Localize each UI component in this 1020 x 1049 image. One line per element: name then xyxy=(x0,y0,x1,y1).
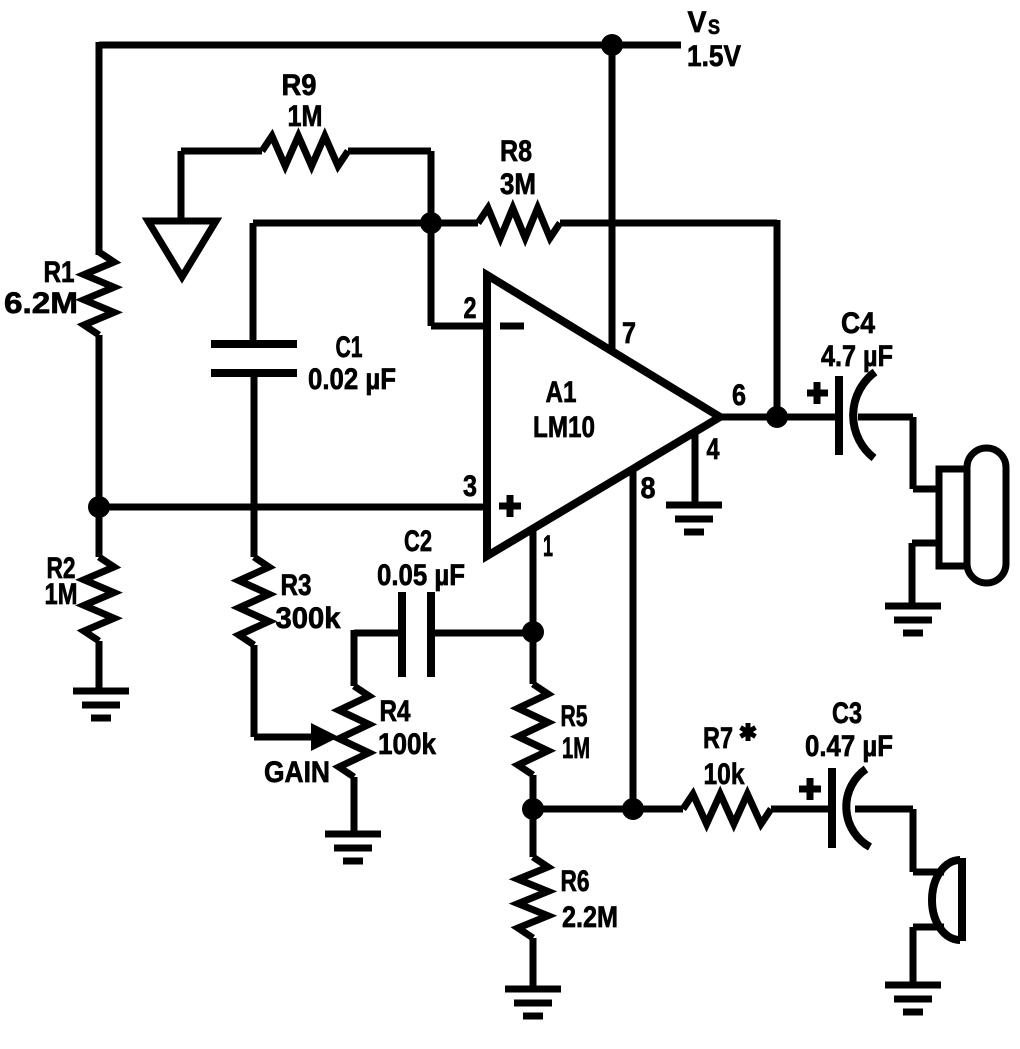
svg-text:R1: R1 xyxy=(44,256,75,289)
svg-text:R4: R4 xyxy=(380,695,411,728)
ground below R6 xyxy=(505,986,561,993)
node pin8 junction dot xyxy=(622,798,644,820)
resistor R8 xyxy=(431,220,478,227)
svg-text:V: V xyxy=(688,6,707,39)
plus sign C4 xyxy=(807,390,828,397)
wire R9 right leg down to junction xyxy=(428,151,435,223)
node Vs junction dot xyxy=(601,34,623,56)
wire C1 bottom through node3 to R3 xyxy=(251,373,258,557)
wire pin 4 to ground xyxy=(692,434,699,505)
svg-text:0.47 µF: 0.47 µF xyxy=(805,730,893,763)
wire speaker 2 to ground xyxy=(913,924,944,931)
svg-text:4: 4 xyxy=(707,433,720,466)
wire R1 to node 3 xyxy=(96,335,103,507)
svg-text:C2: C2 xyxy=(404,525,432,558)
svg-text:R9: R9 xyxy=(282,69,317,102)
op-amp A1 triangle xyxy=(487,275,720,556)
svg-text:C3: C3 xyxy=(832,697,862,730)
wire pin 1 down xyxy=(530,528,537,632)
resistor R6 xyxy=(530,809,537,857)
svg-text:R7: R7 xyxy=(703,722,733,755)
svg-text:7: 7 xyxy=(622,317,636,350)
svg-text:3: 3 xyxy=(463,470,477,503)
minus sign pin 2 xyxy=(500,323,524,330)
node pin1/C2/R5 junction dot xyxy=(522,621,544,643)
svg-text:3M: 3M xyxy=(500,168,536,201)
svg-text:10k: 10k xyxy=(704,758,745,791)
wire R9 left leg down to input arrow xyxy=(178,151,185,220)
svg-text:1M: 1M xyxy=(288,100,323,133)
wire C1 top rail xyxy=(253,220,431,227)
svg-text:100k: 100k xyxy=(378,728,436,761)
node R9/R8/C1 junction dot xyxy=(420,212,442,234)
svg-text:1M: 1M xyxy=(562,732,590,765)
svg-text:LM10: LM10 xyxy=(533,411,595,444)
svg-text:C1: C1 xyxy=(336,331,363,364)
node R5/R6/R7 junction dot xyxy=(522,798,544,820)
svg-text:S: S xyxy=(708,16,720,39)
plus sign C3 xyxy=(799,786,821,793)
svg-text:1M: 1M xyxy=(45,578,78,611)
svg-text:R3: R3 xyxy=(281,569,312,602)
wire output pin 6 xyxy=(718,414,836,421)
resistor R2 xyxy=(96,507,103,557)
svg-text:A1: A1 xyxy=(546,376,577,409)
wire C3 to speaker 2 xyxy=(855,806,913,813)
speaker 2 (earphone dome) xyxy=(958,858,966,941)
capacitor C1 xyxy=(250,223,257,344)
svg-text:R6: R6 xyxy=(561,865,590,898)
wire junction down to pin 2 xyxy=(428,223,435,326)
plus sign pin 3 xyxy=(499,503,521,510)
wiper arrow into R4 xyxy=(311,723,339,751)
svg-text:8: 8 xyxy=(641,472,656,505)
svg-text:R8: R8 xyxy=(500,135,532,168)
svg-text:1.5V: 1.5V xyxy=(687,40,741,73)
svg-text:1: 1 xyxy=(543,530,553,563)
wire C4 to speaker 1 xyxy=(858,414,913,421)
wire left vertical from supply to R1 xyxy=(96,42,103,255)
resistor R9 xyxy=(181,148,262,155)
resistor R7 xyxy=(533,806,683,813)
ground below R2 xyxy=(73,688,129,695)
input transducer arrow (open triangle) xyxy=(148,221,216,277)
wire top supply rail xyxy=(99,42,681,49)
svg-text:4.7 µF: 4.7 µF xyxy=(821,340,893,373)
wire pin 8 down xyxy=(630,470,637,809)
svg-text:C4: C4 xyxy=(841,307,875,340)
svg-text:6.2M: 6.2M xyxy=(4,287,78,320)
wire R6 to ground xyxy=(530,938,537,989)
wire R3 to gain arrow xyxy=(251,645,258,737)
potentiometer R4 xyxy=(351,630,358,686)
node input junction dot xyxy=(88,496,110,518)
wire R4 to ground xyxy=(351,777,358,834)
node output junction dot xyxy=(766,406,788,428)
ground below speaker 2 xyxy=(885,982,941,989)
wire R2 to ground xyxy=(96,641,103,691)
capacitor C2 xyxy=(354,630,402,637)
asterisk for R7 xyxy=(746,723,751,741)
capacitor C4 polarized xyxy=(835,376,843,455)
ground below pin 4 xyxy=(666,502,722,509)
svg-text:GAIN: GAIN xyxy=(264,756,330,789)
wire R8 down to output node xyxy=(774,220,781,417)
svg-text:0.05 µF: 0.05 µF xyxy=(377,559,465,592)
ground below speaker 1 xyxy=(885,603,941,610)
svg-text:R5: R5 xyxy=(561,700,588,733)
wire node 3 to op-amp xyxy=(99,504,487,511)
svg-text:0.02 µF: 0.02 µF xyxy=(308,363,396,396)
wire Vs to pin 7 vertical xyxy=(609,45,616,351)
resistor R3 xyxy=(239,557,269,645)
svg-text:6: 6 xyxy=(732,379,746,412)
svg-text:2.2M: 2.2M xyxy=(562,901,618,934)
wire speaker 1 to ground xyxy=(912,540,939,547)
svg-text:300k: 300k xyxy=(276,602,341,635)
capacitor C3 polarized xyxy=(828,768,836,848)
speaker 1 (earphone capsule) xyxy=(939,469,967,566)
resistor R1 xyxy=(84,252,114,335)
svg-text:2: 2 xyxy=(464,292,477,325)
resistor R5 xyxy=(530,632,537,684)
ground below R4 xyxy=(325,831,381,838)
